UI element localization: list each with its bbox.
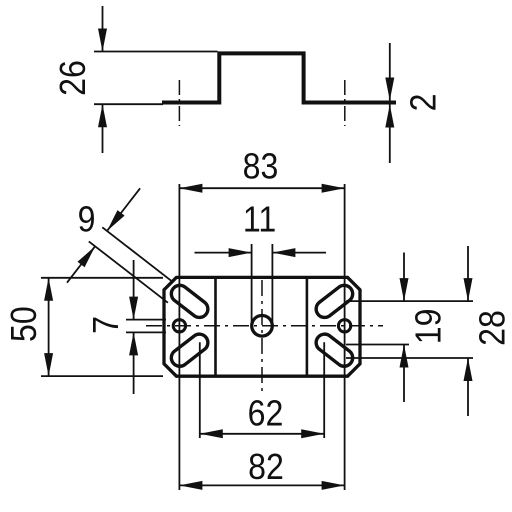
left bend line of hat channel xyxy=(214,277,217,376)
dimension 28 (slot outer spacing) xyxy=(346,357,473,359)
vertical centerline xyxy=(261,280,263,391)
right small hole (dia 7) xyxy=(338,320,350,332)
right bend line of hat channel xyxy=(306,277,309,376)
dimension 2 (material thickness) xyxy=(389,43,391,101)
svg-text:28: 28 xyxy=(473,310,512,346)
top-left slot (9 wide) xyxy=(171,285,208,317)
profile: hat-section bracket outline xyxy=(162,53,396,102)
dimension 7 (small hole diameter) xyxy=(126,319,166,321)
bottom-left slot xyxy=(171,334,208,366)
left small hole (dia 7) xyxy=(173,320,185,332)
dimension 83 (outer slot centres, top) xyxy=(178,184,180,490)
plate outline with chamfered corners xyxy=(164,277,360,376)
svg-text:7: 7 xyxy=(86,316,126,334)
profile: left hole centerline mark xyxy=(178,80,180,126)
svg-text:19: 19 xyxy=(409,309,449,345)
svg-text:50: 50 xyxy=(4,306,44,342)
svg-text:82: 82 xyxy=(248,447,284,487)
dimension 26 (profile height) xyxy=(94,51,218,53)
dimension 62 (inner slot centres) xyxy=(199,342,201,438)
dimension 82 (outer slot centres) xyxy=(179,484,344,486)
dimension 19 (slot spacing) xyxy=(346,300,473,302)
dimension 9 (slot width) xyxy=(102,227,173,282)
profile: right hole centerline mark xyxy=(344,80,346,126)
top-right slot xyxy=(316,285,353,317)
dimension 11 (centre hole diameter) xyxy=(251,244,253,322)
svg-text:9: 9 xyxy=(78,200,96,240)
horizontal centerline xyxy=(146,325,383,327)
svg-text:62: 62 xyxy=(248,394,284,434)
bottom-right slot xyxy=(316,334,353,366)
center hole (dia 11) xyxy=(252,316,273,337)
svg-text:83: 83 xyxy=(243,147,279,187)
svg-text:2: 2 xyxy=(404,94,444,112)
svg-text:11: 11 xyxy=(243,200,276,240)
svg-text:26: 26 xyxy=(53,60,93,96)
dimension 50 (plate height) xyxy=(41,277,163,279)
